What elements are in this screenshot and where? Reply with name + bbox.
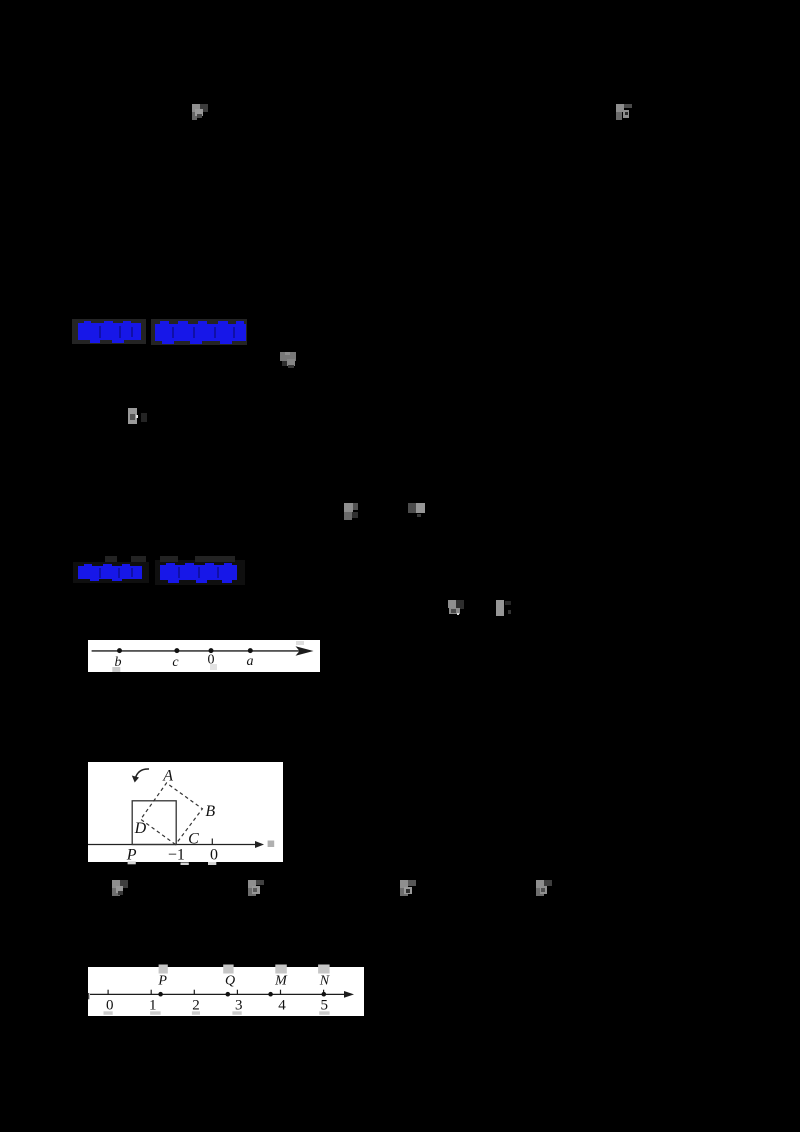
svg-text:5: 5 [321,998,329,1014]
svg-text:B: B [205,803,215,820]
svg-text:0: 0 [210,847,218,864]
svg-text:D: D [134,820,147,837]
svg-text:C: C [188,831,199,848]
svg-text:N: N [319,973,330,988]
svg-text:2: 2 [192,998,200,1014]
svg-text:M: M [274,973,288,988]
svg-text:4: 4 [278,998,286,1014]
svg-text:3: 3 [235,998,243,1014]
svg-text:b: b [115,655,122,670]
svg-text:1: 1 [149,998,157,1014]
svg-text:A: A [162,767,173,784]
svg-text:c: c [172,655,179,670]
svg-text:Q: Q [225,973,235,988]
svg-text:P: P [157,973,167,988]
svg-text:P: P [126,846,137,863]
svg-text:−1: −1 [168,846,185,863]
svg-text:a: a [247,654,254,669]
svg-text:0: 0 [208,653,215,668]
svg-text:0: 0 [106,998,114,1014]
